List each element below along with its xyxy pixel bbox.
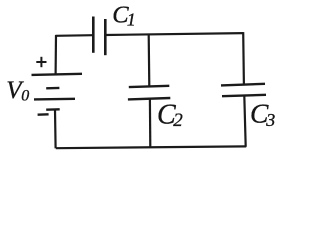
svg-text:0: 0: [21, 88, 29, 105]
svg-text:3: 3: [265, 110, 275, 130]
svg-text:2: 2: [173, 110, 183, 131]
svg-text:1: 1: [127, 10, 136, 30]
